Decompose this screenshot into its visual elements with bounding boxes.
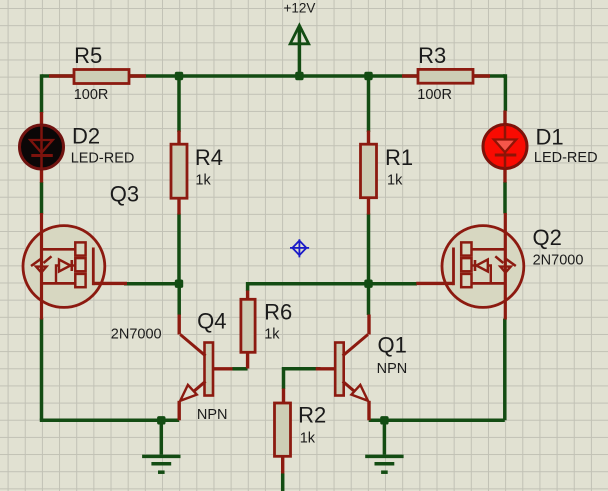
svg-text:1k: 1k bbox=[300, 430, 316, 446]
wire R1 top (rail to R1) bbox=[367, 76, 371, 132]
node A junction (R4, Q3 gate, Q4 collector) bbox=[175, 280, 183, 288]
wire R4 bottom to node A bbox=[177, 214, 181, 284]
wire D2 cathode to Q3 drain bbox=[40, 182, 44, 214]
svg-text:D2: D2 bbox=[72, 124, 100, 149]
wire left bottom rail bbox=[40, 419, 179, 423]
wire Q2 source down to bottom rail bbox=[503, 319, 507, 421]
wire R6 top corner to Q2 gate bbox=[248, 284, 417, 291]
svg-text:100R: 100R bbox=[417, 87, 452, 103]
wire right bottom rail bbox=[369, 419, 505, 423]
svg-text:Q4: Q4 bbox=[197, 308, 226, 333]
resistor R5 bbox=[74, 70, 129, 84]
svg-text:R4: R4 bbox=[195, 145, 223, 170]
LED D1 (lit) bbox=[483, 125, 527, 169]
svg-text:100R: 100R bbox=[74, 87, 109, 103]
wire D2 leads bbox=[40, 112, 43, 183]
svg-text:1k: 1k bbox=[195, 172, 211, 188]
svg-text:1k: 1k bbox=[264, 327, 280, 343]
power +12V arrow bbox=[290, 25, 309, 76]
wire R2 bottom lead bbox=[281, 473, 285, 491]
wire R3 left lead bbox=[402, 74, 418, 77]
wire top rail VCC bbox=[42, 74, 506, 78]
svg-text:NPN: NPN bbox=[197, 407, 228, 423]
resistor R3 bbox=[418, 69, 473, 83]
svg-text:Q2: Q2 bbox=[533, 225, 562, 250]
svg-text:LED-RED: LED-RED bbox=[71, 150, 135, 166]
LED D2 (off) bbox=[20, 125, 64, 169]
node +12V/VCC rail junction bbox=[295, 72, 303, 80]
transistor Q1 NPN (mirrored) bbox=[316, 315, 369, 421]
resistor R6 bbox=[241, 299, 255, 352]
svg-text:R5: R5 bbox=[74, 43, 102, 68]
svg-text:Q1: Q1 bbox=[378, 333, 407, 358]
node GND junction right bbox=[380, 416, 388, 424]
wire R5 left lead bbox=[49, 74, 74, 77]
wire R3 right lead bbox=[473, 74, 490, 77]
origin crosshair marker bbox=[290, 239, 309, 257]
wire R1 leads bbox=[367, 131, 370, 215]
ground right bbox=[365, 420, 403, 472]
ground left bbox=[142, 420, 180, 472]
svg-text:2N7000: 2N7000 bbox=[533, 252, 584, 268]
node R4/VCC rail junction bbox=[175, 72, 183, 80]
wire Q3 source down to bottom rail bbox=[40, 318, 44, 420]
wire D1 cathode to Q2 drain bbox=[503, 182, 507, 214]
wire R6 leads bbox=[246, 291, 249, 369]
svg-text:Q3: Q3 bbox=[110, 182, 139, 207]
wire R2 leads bbox=[281, 389, 285, 474]
wire node B down to Q1 collector bbox=[367, 284, 371, 315]
resistor R2 bbox=[275, 403, 291, 456]
transistor Q3 2N7000 MOSFET bbox=[23, 213, 127, 320]
resistor R4 bbox=[171, 144, 187, 198]
wire node A down to Q4 collector bbox=[177, 284, 181, 315]
wire R6 bottom corner to Q4 base bbox=[232, 367, 247, 371]
svg-text:LED-RED: LED-RED bbox=[534, 150, 598, 166]
wire R4 top (rail to R4) bbox=[177, 76, 181, 132]
node B junction (R1, Q2 gate, Q1 collector) bbox=[364, 280, 372, 288]
wire Q1 base to R2 top bbox=[284, 369, 321, 389]
svg-text:R1: R1 bbox=[385, 145, 413, 170]
node GND junction left bbox=[157, 416, 165, 424]
wire left vertical (rail to D2) bbox=[40, 74, 44, 113]
svg-text:D1: D1 bbox=[536, 125, 564, 150]
svg-text:NPN: NPN bbox=[377, 361, 408, 377]
svg-text:2N7000: 2N7000 bbox=[111, 326, 162, 342]
node R1/VCC rail junction bbox=[364, 72, 372, 80]
resistor R1 bbox=[361, 144, 377, 198]
svg-text:R3: R3 bbox=[418, 43, 446, 68]
svg-text:R2: R2 bbox=[298, 402, 326, 427]
svg-text:R6: R6 bbox=[264, 300, 292, 325]
wire Q3 gate to node A bbox=[124, 282, 179, 286]
transistor Q4 NPN bbox=[179, 315, 232, 421]
wire R5 right lead bbox=[129, 74, 146, 77]
svg-text:1k: 1k bbox=[387, 172, 403, 188]
wire R4 leads bbox=[177, 131, 180, 215]
wire right vertical (rail corner to D1) bbox=[503, 74, 505, 111]
wire R1 bottom to node B bbox=[367, 214, 371, 284]
transistor Q2 2N7000 MOSFET (mirrored) bbox=[416, 213, 524, 320]
wire D1 leads bbox=[503, 111, 506, 183]
svg-text:+12V: +12V bbox=[283, 1, 315, 16]
